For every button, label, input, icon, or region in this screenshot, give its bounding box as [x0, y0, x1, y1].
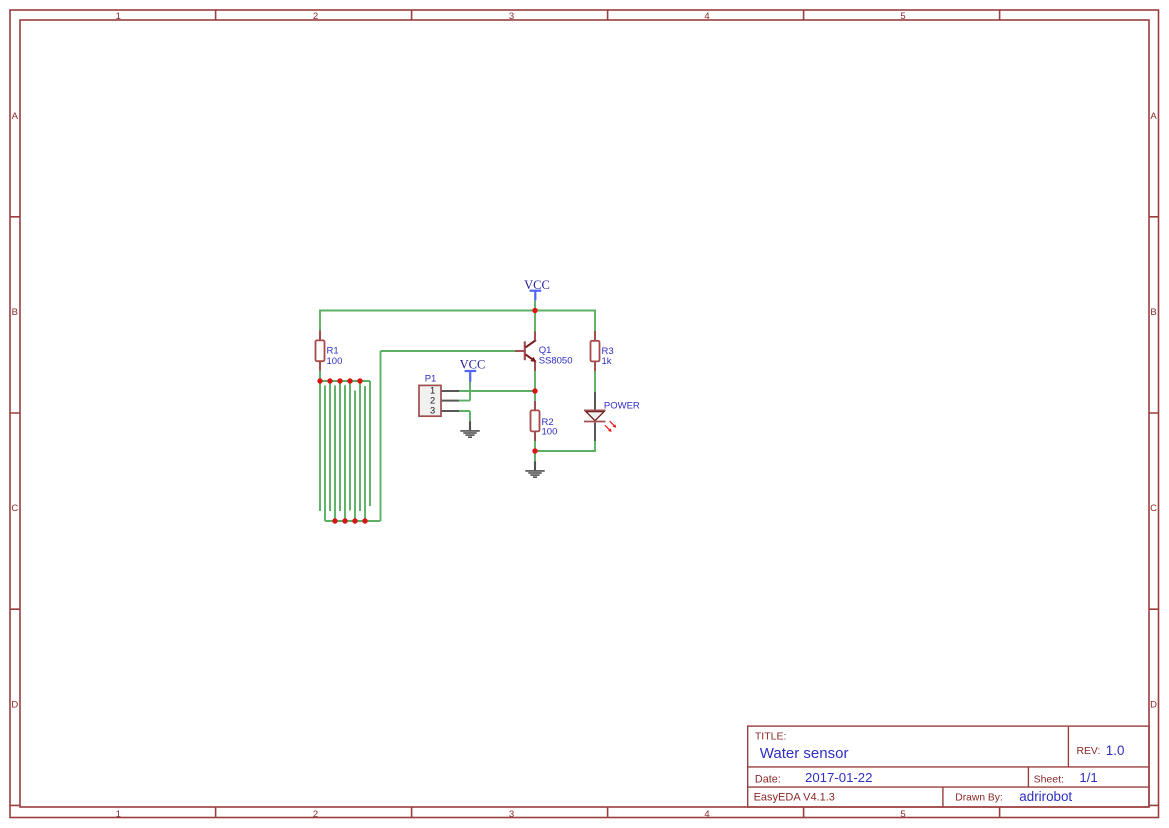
svg-text:C: C [11, 503, 18, 514]
svg-text:Sheet:: Sheet: [1034, 773, 1064, 785]
resistor R2 [531, 401, 540, 441]
ground (under P1) [460, 421, 479, 437]
svg-text:5: 5 [900, 809, 905, 820]
svg-text:REV:: REV: [1077, 746, 1101, 757]
svg-text:B: B [1150, 307, 1156, 318]
svg-text:1/1: 1/1 [1079, 770, 1097, 785]
svg-text:Drawn By:: Drawn By: [955, 792, 1003, 803]
svg-text:2: 2 [430, 395, 435, 405]
svg-text:5: 5 [900, 11, 905, 22]
svg-text:Date:: Date: [755, 773, 781, 785]
svg-text:EasyEDA V4.1.3: EasyEDA V4.1.3 [754, 792, 835, 804]
wire sensor to base net [380, 351, 382, 521]
svg-text:R1: R1 [327, 346, 339, 357]
svg-text:Water sensor: Water sensor [760, 745, 849, 762]
svg-text:4: 4 [704, 809, 709, 820]
svg-text:100: 100 [542, 426, 558, 437]
wire R1 bottom to sensor [319, 371, 321, 382]
wire R2 bottom to node [534, 441, 536, 451]
label P1 [425, 374, 437, 385]
wire node to ground [534, 451, 536, 461]
svg-text:TITLE:: TITLE: [755, 730, 787, 742]
wire VCC top net [320, 310, 595, 312]
power flag VCC (top) [524, 278, 550, 301]
wire LED to R2 bottom node [535, 441, 595, 451]
svg-text:A: A [1150, 111, 1157, 122]
wire P1 pin3 to ground [459, 411, 470, 421]
wire node to R2 top [534, 391, 536, 401]
svg-text:3: 3 [509, 11, 514, 22]
resistor R1 [316, 331, 325, 371]
svg-text:SS8050: SS8050 [539, 356, 573, 367]
svg-text:3: 3 [430, 406, 435, 416]
svg-text:3: 3 [509, 809, 514, 820]
wire R3 top [594, 310, 596, 332]
transistor Q1 [515, 331, 537, 371]
svg-text:D: D [11, 699, 18, 710]
ground (under R2) [525, 461, 544, 477]
power flag VCC (at P1) [460, 358, 486, 382]
svg-text:1.0: 1.0 [1106, 743, 1125, 758]
svg-text:1k: 1k [602, 356, 612, 367]
net label POWER [604, 400, 640, 411]
label Q1 SS8050 [539, 345, 573, 366]
svg-text:B: B [12, 307, 18, 318]
SCHEMATIC [316, 278, 640, 524]
svg-text:100: 100 [327, 356, 343, 367]
svg-text:2: 2 [313, 11, 318, 22]
LED POWER [584, 392, 616, 441]
svg-text:1: 1 [116, 809, 121, 820]
water sensor electrode comb [320, 381, 381, 521]
svg-text:POWER: POWER [604, 400, 640, 411]
svg-text:adrirobot: adrirobot [1019, 789, 1072, 804]
label R1 value 100 [327, 346, 343, 368]
wire base net [381, 350, 516, 352]
junctions sensor top bar [317, 378, 362, 383]
label R3 value 1k [602, 346, 614, 367]
title block [748, 726, 1149, 807]
svg-text:2: 2 [313, 809, 318, 820]
wire R3 to LED [594, 371, 596, 392]
wire VCC stem to top net [534, 300, 536, 310]
label R2 value 100 [542, 417, 558, 438]
svg-text:VCC: VCC [460, 358, 486, 372]
junction at R2 bottom node [532, 448, 537, 453]
junctions sensor bottom bar [332, 518, 367, 523]
junction at VCC/top net [532, 308, 537, 313]
wire R1 top [319, 310, 321, 331]
wire P1 pin1 to emitter node [459, 390, 535, 392]
svg-text:2017-01-22: 2017-01-22 [805, 770, 872, 785]
wire Q1 emitter to node [534, 371, 536, 391]
wire Q1 collector to top net [534, 311, 536, 332]
svg-text:1: 1 [116, 11, 121, 22]
svg-text:VCC: VCC [524, 278, 550, 292]
connector P1 [419, 385, 459, 416]
svg-text:4: 4 [704, 11, 709, 22]
svg-text:C: C [1150, 503, 1157, 514]
svg-text:1: 1 [430, 386, 435, 396]
wire VCC2 to P1 pin2 [459, 382, 470, 401]
svg-text:A: A [12, 111, 19, 122]
resistor R3 [591, 331, 600, 371]
svg-text:P1: P1 [425, 374, 437, 385]
junction at emitter/P1 node [532, 388, 537, 393]
svg-text:D: D [1150, 699, 1157, 710]
